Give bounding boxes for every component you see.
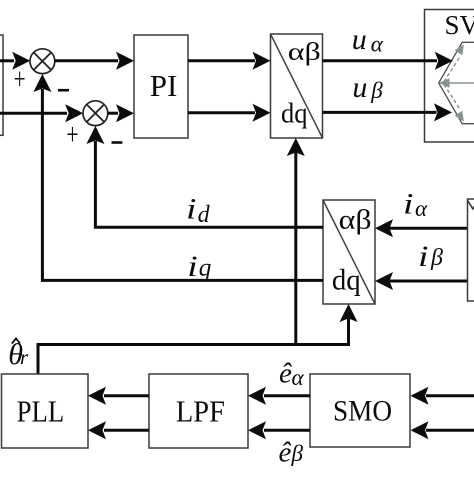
wire: measured currents to SMO upper bbox=[411, 387, 474, 405]
SVPWM sector vector arrows (gray) bbox=[439, 44, 474, 121]
wire: measured currents to SMO lower bbox=[411, 421, 474, 439]
label e_beta_hat bbox=[279, 436, 304, 468]
SMO block bbox=[310, 374, 410, 447]
svg-text:dq: dq bbox=[332, 265, 361, 297]
LPF block bbox=[149, 374, 248, 448]
label u_alpha bbox=[352, 23, 384, 57]
reference input block (clipped at left edge) bbox=[0, 35, 3, 135]
svg-text:PLL: PLL bbox=[17, 393, 65, 428]
wire: junction 1 to PI bbox=[55, 52, 134, 70]
svg-text:SVPWM: SVPWM bbox=[445, 10, 474, 40]
svg-text:ê: ê bbox=[279, 436, 292, 468]
svg-text:β: β bbox=[291, 441, 304, 466]
svg-text:α: α bbox=[371, 32, 384, 57]
SVPWM space-vector hexagon bbox=[439, 42, 474, 123]
svg-text:i: i bbox=[418, 240, 429, 273]
svg-text:α: α bbox=[292, 365, 305, 390]
svg-text:SMO: SMO bbox=[333, 395, 392, 428]
wire: reference q input to summing junction 2 bbox=[0, 104, 83, 122]
wire e_alpha_hat: SMO to LPF bbox=[248, 387, 310, 405]
minus sign at junction 2 bbox=[112, 141, 123, 144]
label i_q bbox=[187, 250, 211, 283]
alpha-beta to dq current transform block U2 bbox=[323, 200, 375, 304]
svg-text:αβ: αβ bbox=[288, 37, 321, 66]
svg-text:β: β bbox=[430, 245, 443, 271]
wire e_beta_hat: SMO to LPF bbox=[248, 421, 310, 439]
svg-text:u: u bbox=[352, 71, 367, 104]
label i_alpha bbox=[403, 187, 428, 221]
wire i_alpha: motor to current transform bbox=[375, 219, 468, 237]
svg-text:αβ: αβ bbox=[339, 204, 372, 234]
wire: junction 2 to PI bbox=[108, 104, 134, 122]
wire i_q: current transform to junction 1 bbox=[33, 74, 323, 280]
label i_beta bbox=[418, 240, 443, 273]
label u_beta bbox=[352, 71, 383, 104]
minus sign at junction 1 bbox=[58, 89, 69, 92]
svg-text:+: + bbox=[66, 116, 78, 151]
svg-text:i: i bbox=[403, 187, 414, 220]
svg-text:dq: dq bbox=[281, 98, 308, 130]
wire: LPF to PLL lower bbox=[88, 421, 149, 439]
wire i_d: current transform to junction 2 bbox=[86, 126, 323, 227]
dq to alpha-beta transform block U1 bbox=[271, 34, 323, 138]
svg-text:+: + bbox=[14, 61, 26, 96]
svg-text:β: β bbox=[370, 78, 383, 103]
svg-text:q: q bbox=[199, 255, 212, 282]
summing junction 2 bbox=[83, 101, 108, 126]
wire theta_hat: PLL to both transforms bbox=[38, 138, 358, 374]
svg-text:d: d bbox=[198, 202, 211, 228]
svg-text:ê: ê bbox=[279, 357, 292, 389]
motor / inverter block (clipped at right edge) bbox=[468, 199, 474, 301]
PLL block bbox=[2, 374, 89, 448]
wire: PI to dq-to-alphabeta transform (q channel) bbox=[188, 104, 271, 122]
wire: LPF to PLL upper bbox=[88, 387, 149, 405]
label theta_hat_r bbox=[8, 338, 29, 371]
svg-text:i: i bbox=[187, 250, 198, 283]
label i_d bbox=[186, 193, 211, 228]
summing junction 1 bbox=[30, 49, 55, 74]
wire u_beta: transform to SVPWM bbox=[323, 103, 453, 121]
svg-text:u: u bbox=[352, 23, 367, 56]
label e_alpha_hat bbox=[279, 357, 305, 390]
svg-text:PI: PI bbox=[150, 68, 178, 103]
wire u_alpha: transform to SVPWM bbox=[323, 52, 453, 70]
wire i_beta: motor to current transform bbox=[375, 272, 468, 290]
SVPWM block (clipped at right edge) bbox=[425, 10, 474, 143]
svg-text:LPF: LPF bbox=[176, 393, 225, 428]
svg-text:α: α bbox=[415, 196, 428, 221]
PI controller block bbox=[134, 35, 188, 138]
wire: PI to dq-to-alphabeta transform (d channel) bbox=[188, 52, 271, 70]
wire: reference d input to summing junction 1 bbox=[0, 52, 30, 70]
svg-text:r: r bbox=[20, 345, 29, 369]
svg-text:i: i bbox=[186, 193, 197, 226]
